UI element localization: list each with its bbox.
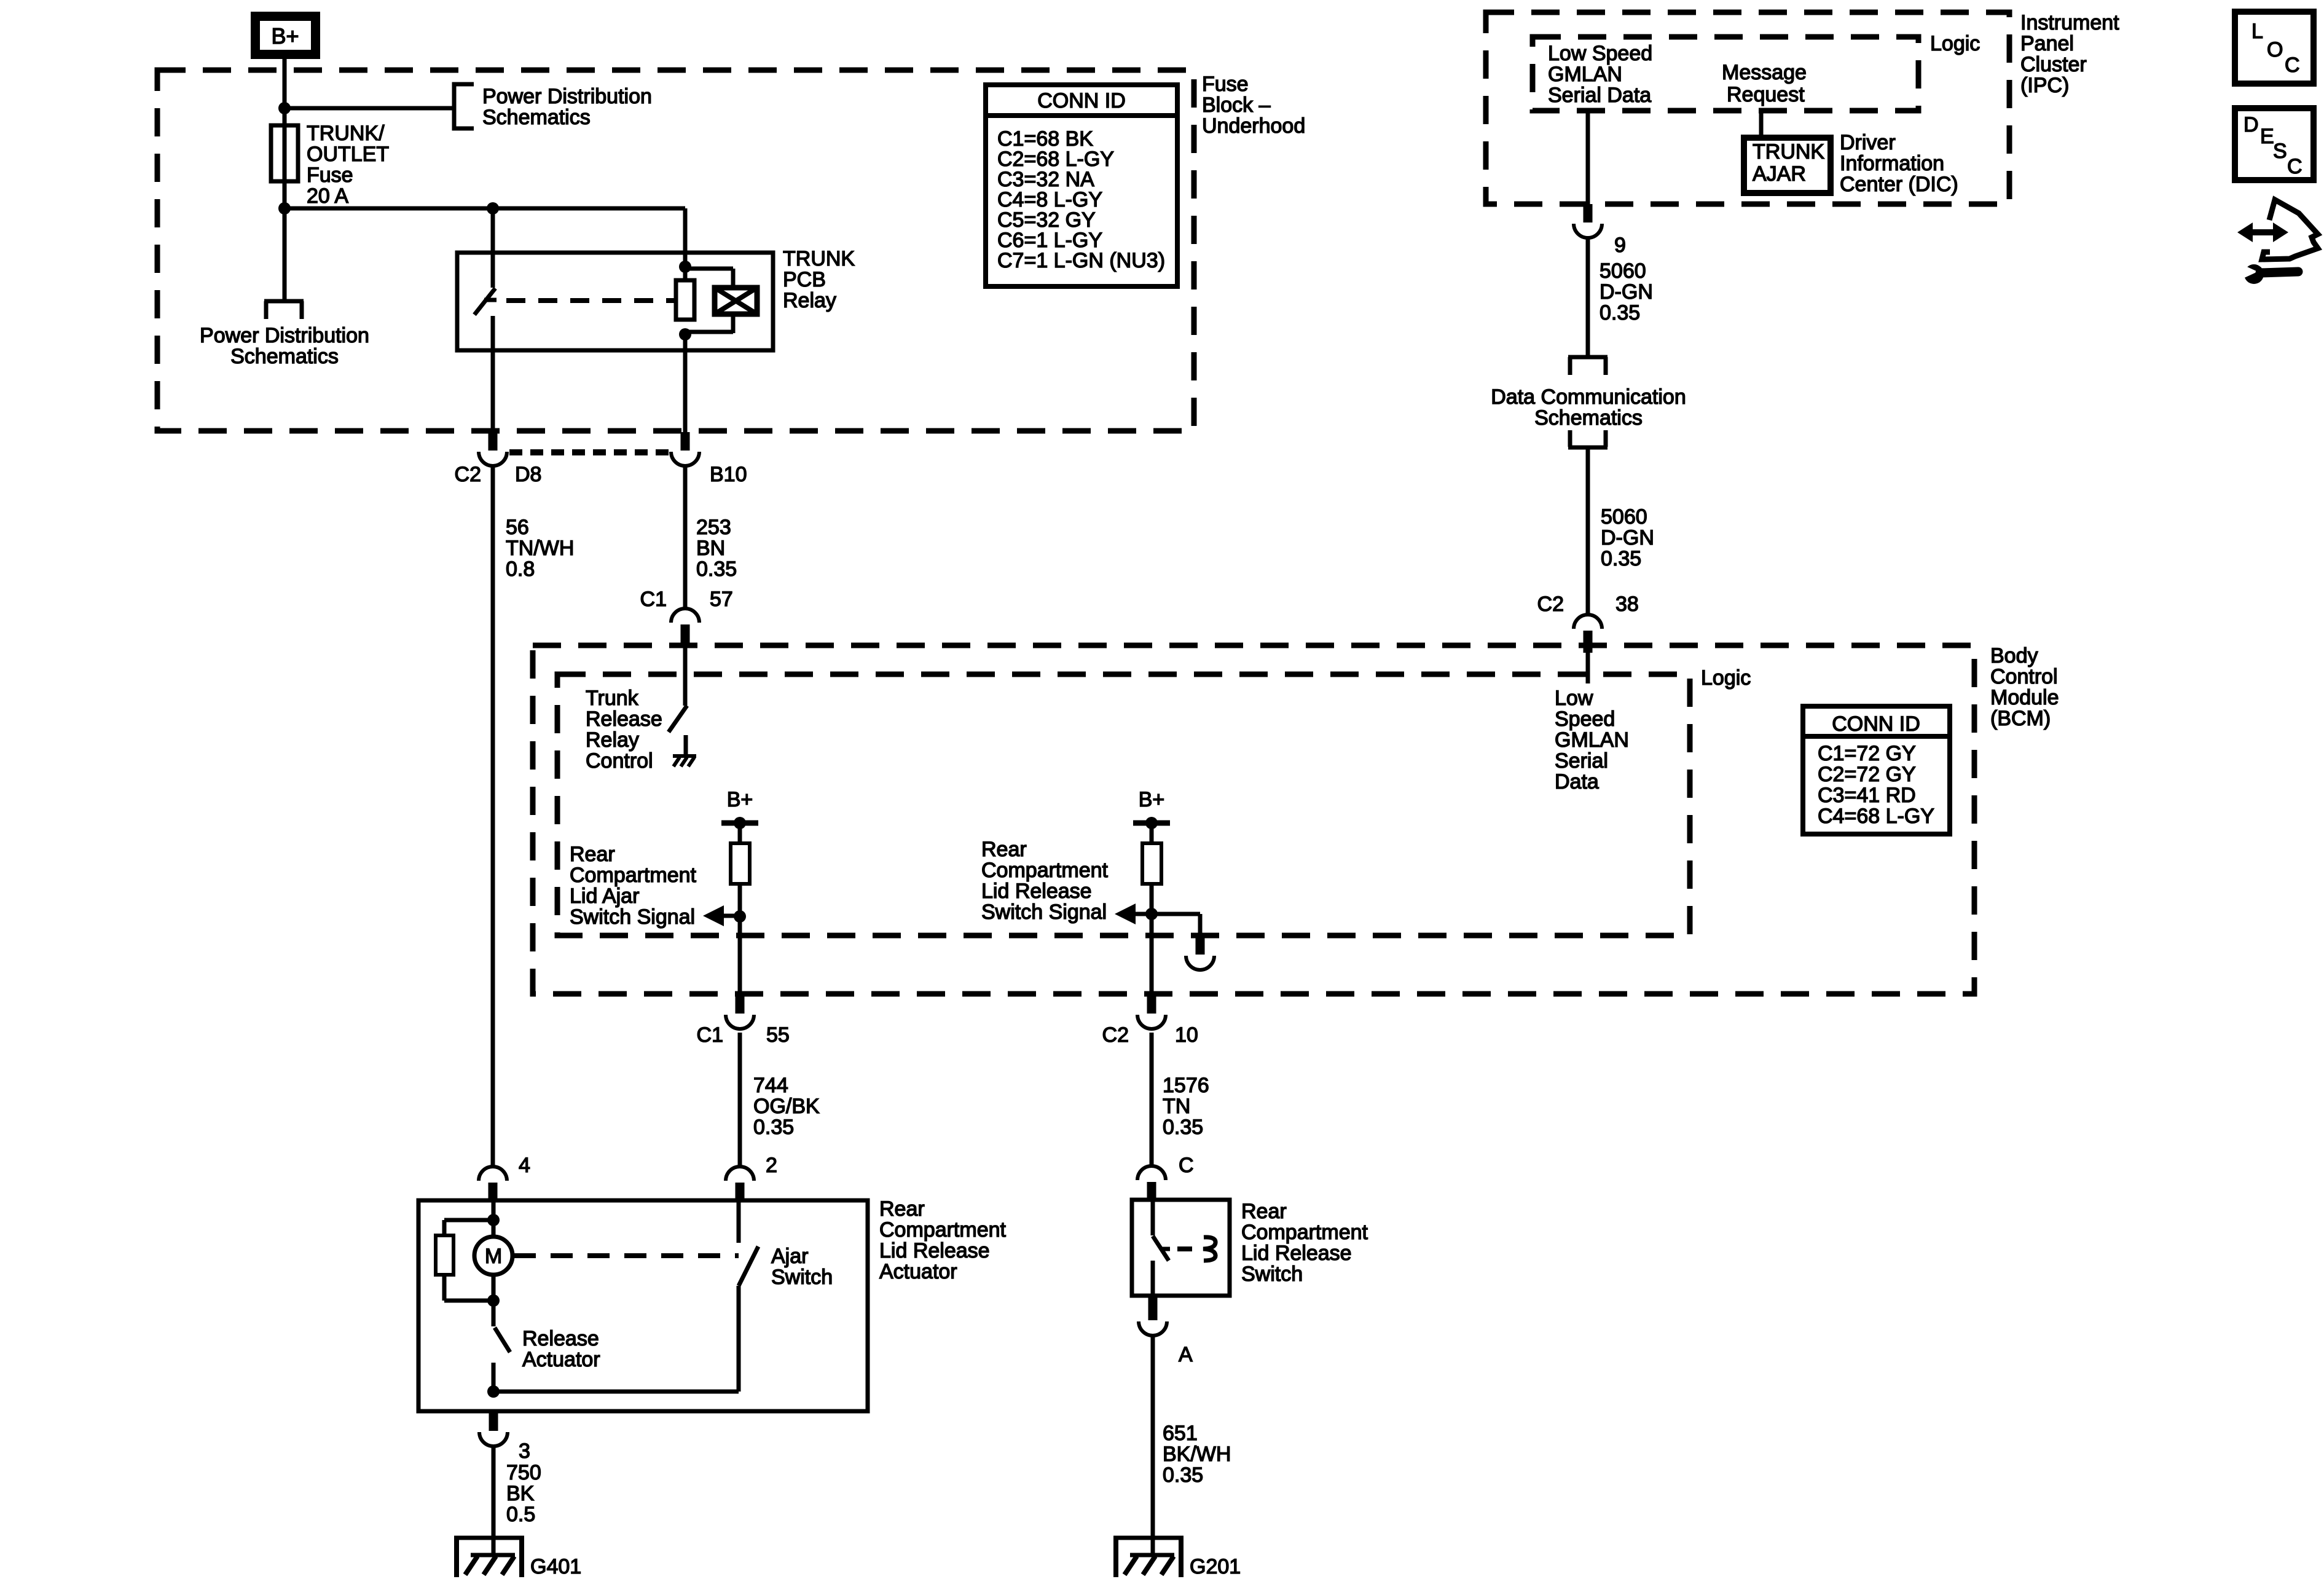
svg-text:Logic: Logic xyxy=(1930,32,1980,55)
svg-text:20 A: 20 A xyxy=(307,184,348,208)
svg-text:Serial Data: Serial Data xyxy=(1548,84,1651,107)
svg-text:Rear: Rear xyxy=(1241,1200,1287,1223)
svg-text:BK: BK xyxy=(506,1482,535,1505)
svg-text:A: A xyxy=(1179,1343,1193,1366)
svg-text:3: 3 xyxy=(519,1439,530,1463)
svg-text:Data Communication: Data Communication xyxy=(1491,385,1686,409)
svg-text:PCB: PCB xyxy=(783,268,826,291)
svg-text:Information: Information xyxy=(1840,152,1944,175)
svg-text:Switch Signal: Switch Signal xyxy=(981,900,1107,924)
svg-text:Low: Low xyxy=(1555,687,1593,710)
svg-text:Module: Module xyxy=(1990,686,2059,709)
svg-text:BK/WH: BK/WH xyxy=(1163,1443,1231,1466)
svg-text:Relay: Relay xyxy=(783,289,836,312)
svg-text:Block –: Block – xyxy=(1202,93,1271,117)
svg-text:GMLAN: GMLAN xyxy=(1548,63,1622,86)
svg-text:Fuse: Fuse xyxy=(1202,73,1249,96)
svg-text:Fuse: Fuse xyxy=(307,163,353,187)
svg-text:Lid Ajar: Lid Ajar xyxy=(570,884,639,908)
svg-text:5060: 5060 xyxy=(1601,505,1647,529)
svg-text:Control: Control xyxy=(1990,665,2058,688)
svg-text:Data: Data xyxy=(1555,770,1599,793)
svg-text:651: 651 xyxy=(1163,1422,1198,1445)
svg-text:Rear: Rear xyxy=(981,838,1027,861)
svg-text:Lid Release: Lid Release xyxy=(1241,1242,1352,1265)
svg-text:Driver: Driver xyxy=(1840,131,1896,154)
svg-text:0.35: 0.35 xyxy=(1163,1463,1203,1487)
svg-text:OUTLET: OUTLET xyxy=(307,143,389,166)
svg-text:2: 2 xyxy=(766,1154,777,1177)
svg-text:Low Speed: Low Speed xyxy=(1548,42,1652,65)
svg-text:Switch: Switch xyxy=(771,1266,833,1289)
svg-text:Relay: Relay xyxy=(586,728,639,752)
svg-text:C2=72 GY: C2=72 GY xyxy=(1818,763,1916,786)
svg-text:0.35: 0.35 xyxy=(696,557,737,581)
svg-text:Compartment: Compartment xyxy=(570,864,697,887)
svg-text:Speed: Speed xyxy=(1555,707,1615,731)
svg-text:0.35: 0.35 xyxy=(753,1116,794,1139)
svg-text:C1: C1 xyxy=(640,588,667,611)
svg-text:Panel: Panel xyxy=(2020,32,2074,55)
svg-text:G201: G201 xyxy=(1190,1555,1241,1578)
svg-text:B10: B10 xyxy=(710,463,747,486)
svg-text:M: M xyxy=(485,1245,502,1268)
svg-text:744: 744 xyxy=(753,1074,788,1097)
svg-text:Switch: Switch xyxy=(1241,1262,1303,1286)
svg-text:TN: TN xyxy=(1163,1095,1190,1118)
svg-text:D-GN: D-GN xyxy=(1600,280,1653,304)
svg-text:Cluster: Cluster xyxy=(2020,53,2087,76)
svg-text:Lid Release: Lid Release xyxy=(981,880,1092,903)
svg-text:Lid Release: Lid Release xyxy=(879,1239,990,1262)
svg-text:0.35: 0.35 xyxy=(1600,301,1640,325)
svg-text:10: 10 xyxy=(1175,1023,1198,1047)
svg-text:5060: 5060 xyxy=(1600,259,1646,283)
svg-text:BN: BN xyxy=(696,537,725,560)
svg-text:C3=41 RD: C3=41 RD xyxy=(1818,784,1916,807)
svg-text:750: 750 xyxy=(506,1461,541,1484)
svg-text:L: L xyxy=(2251,20,2263,43)
svg-text:55: 55 xyxy=(766,1023,790,1047)
svg-text:Release: Release xyxy=(586,707,662,731)
svg-text:Control: Control xyxy=(586,749,653,773)
svg-text:0.35: 0.35 xyxy=(1163,1116,1203,1139)
svg-text:GMLAN: GMLAN xyxy=(1555,728,1629,752)
svg-text:TN/WH: TN/WH xyxy=(506,537,574,560)
svg-text:1576: 1576 xyxy=(1163,1074,1209,1097)
svg-text:56: 56 xyxy=(506,516,529,539)
svg-text:0.8: 0.8 xyxy=(506,557,535,581)
svg-text:Ajar: Ajar xyxy=(771,1245,808,1268)
svg-text:Message: Message xyxy=(1722,61,1807,84)
svg-text:Request: Request xyxy=(1727,83,1805,106)
svg-text:Power Distribution: Power Distribution xyxy=(482,85,652,108)
svg-text:(BCM): (BCM) xyxy=(1990,707,2051,730)
svg-text:Logic: Logic xyxy=(1701,666,1751,690)
svg-text:CONN ID: CONN ID xyxy=(1832,712,1920,736)
svg-text:Body: Body xyxy=(1990,644,2038,667)
svg-text:Schematics: Schematics xyxy=(1534,406,1643,430)
svg-text:C: C xyxy=(2287,155,2302,178)
svg-text:Compartment: Compartment xyxy=(1241,1221,1368,1244)
svg-text:Rear: Rear xyxy=(570,843,615,866)
svg-text:57: 57 xyxy=(710,588,733,611)
svg-text:(IPC): (IPC) xyxy=(2020,74,2069,97)
svg-text:D8: D8 xyxy=(515,463,541,486)
svg-text:253: 253 xyxy=(696,516,731,539)
svg-text:C2: C2 xyxy=(1102,1023,1129,1047)
svg-text:B+: B+ xyxy=(271,23,299,49)
svg-text:4: 4 xyxy=(519,1154,530,1177)
svg-text:TRUNK: TRUNK xyxy=(783,247,855,270)
svg-text:Actuator: Actuator xyxy=(879,1260,957,1283)
svg-text:C: C xyxy=(2285,53,2300,77)
svg-text:TRUNK: TRUNK xyxy=(1753,140,1824,163)
svg-text:Compartment: Compartment xyxy=(981,859,1109,882)
svg-text:C2: C2 xyxy=(455,463,481,486)
svg-text:Release: Release xyxy=(522,1327,599,1350)
svg-text:D-GN: D-GN xyxy=(1601,526,1654,549)
svg-text:Serial: Serial xyxy=(1555,749,1608,773)
svg-text:Switch Signal: Switch Signal xyxy=(570,905,695,929)
svg-text:Instrument: Instrument xyxy=(2020,11,2119,34)
svg-text:Trunk: Trunk xyxy=(586,687,639,710)
svg-text:Center (DIC): Center (DIC) xyxy=(1840,173,1958,196)
svg-text:Rear: Rear xyxy=(879,1197,925,1221)
svg-text:Actuator: Actuator xyxy=(522,1348,600,1371)
svg-text:38: 38 xyxy=(1615,593,1639,616)
svg-text:C1: C1 xyxy=(697,1023,723,1047)
svg-text:C: C xyxy=(1179,1154,1194,1177)
svg-text:B+: B+ xyxy=(1139,788,1165,811)
svg-text:Compartment: Compartment xyxy=(879,1218,1007,1242)
svg-text:C7=1 L-GN (NU3): C7=1 L-GN (NU3) xyxy=(997,249,1165,272)
svg-text:Power Distribution: Power Distribution xyxy=(200,324,369,347)
svg-text:AJAR: AJAR xyxy=(1753,162,1806,186)
svg-text:B+: B+ xyxy=(727,788,753,811)
svg-text:0.5: 0.5 xyxy=(506,1503,535,1526)
svg-text:Schematics: Schematics xyxy=(482,106,591,129)
svg-text:OG/BK: OG/BK xyxy=(753,1095,820,1118)
svg-text:C1=72 GY: C1=72 GY xyxy=(1818,742,1916,765)
svg-text:0.35: 0.35 xyxy=(1601,547,1641,570)
svg-text:9: 9 xyxy=(1614,234,1626,257)
svg-text:Schematics: Schematics xyxy=(230,345,339,368)
svg-text:CONN ID: CONN ID xyxy=(1037,89,1126,112)
svg-text:C2: C2 xyxy=(1537,593,1564,616)
svg-text:D: D xyxy=(2244,113,2259,136)
svg-text:O: O xyxy=(2267,38,2283,61)
svg-text:C4=68 L-GY: C4=68 L-GY xyxy=(1818,805,1934,828)
svg-text:E: E xyxy=(2260,125,2274,148)
svg-text:S: S xyxy=(2273,140,2287,163)
svg-text:G401: G401 xyxy=(530,1555,581,1578)
svg-text:Underhood: Underhood xyxy=(1202,114,1305,138)
svg-text:TRUNK/: TRUNK/ xyxy=(307,122,385,145)
